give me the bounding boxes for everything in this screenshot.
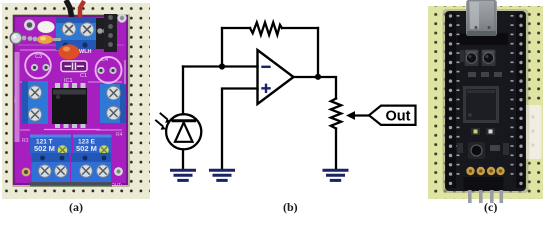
left header strip (446, 13, 456, 188)
shadow under terminals (30, 182, 112, 187)
wire feedback right vertical (317, 28, 319, 77)
wire op-amp output (294, 77, 337, 99)
perfboard C (428, 6, 543, 199)
wire feedback top (222, 27, 318, 29)
mounting hole top-right (117, 13, 126, 22)
trimpot left (30, 135, 71, 155)
usb-c connector (457, 0, 508, 45)
right mid terminal (100, 84, 126, 123)
DIP-8 IC (52, 83, 87, 128)
caption (b) (283, 200, 298, 215)
pcb left edge highlight (15, 52, 20, 142)
gold hole bottom-right (114, 167, 123, 176)
nrst button (482, 50, 496, 67)
left mid terminal (22, 81, 48, 124)
resistor R1 (250, 22, 282, 35)
wire non-inverting input (222, 89, 258, 170)
C1 part (61, 61, 87, 72)
white connector (526, 105, 542, 159)
wire pot to ground (335, 129, 337, 170)
pcb shadow (12, 14, 130, 187)
transistor circle right (96, 57, 122, 83)
wire feedback left vertical (221, 28, 223, 67)
gold pads (466, 167, 504, 175)
op-amp U1 (258, 50, 294, 104)
wire inverting input (183, 65, 258, 67)
potentiometer R2 (331, 99, 341, 129)
smd leds (471, 128, 495, 135)
header right column (104, 14, 117, 52)
top terminal block (56, 17, 96, 50)
silkscreen traces (16, 45, 125, 130)
black socket (96, 18, 108, 49)
ground under non-inverting input (211, 170, 234, 180)
LED left edge (10, 32, 37, 44)
board shadow (443, 9, 529, 193)
ground under potentiometer (324, 170, 347, 180)
perfboard A (2, 3, 150, 199)
pins below (468, 190, 503, 203)
pin labels right (511, 15, 514, 175)
out flag (369, 106, 416, 125)
pin labels left (457, 15, 460, 175)
caption (a) (69, 200, 83, 215)
wiper arrow (346, 111, 369, 120)
boot0 button (465, 50, 479, 67)
orange capacitor (59, 45, 80, 60)
bottom terminal right (71, 153, 111, 182)
mounting hole top-left (24, 20, 35, 31)
caption (c) (484, 200, 497, 215)
silk text C3 C4 IC1 (22, 54, 123, 144)
white blob (38, 21, 55, 33)
lower small parts (457, 143, 509, 155)
node junction inverting input (219, 63, 225, 69)
trimpot right (73, 135, 112, 155)
ground under photodiode (172, 170, 195, 180)
gold hole bottom-left (22, 168, 31, 177)
mcu chip (463, 86, 499, 123)
silk text WLH (79, 49, 92, 55)
photodiode D1 (156, 114, 201, 150)
red wire (80, 1, 84, 19)
right header strip (516, 13, 525, 188)
lower button (468, 142, 485, 159)
purple PCB (14, 16, 127, 184)
amber diode (37, 35, 61, 44)
black wire (66, 0, 72, 19)
small parts above mcu (460, 50, 502, 77)
silk vertical labels (13, 95, 123, 187)
wire photodiode to ground (182, 149, 184, 169)
transistor circle left (25, 53, 51, 79)
bottom terminal left (32, 153, 71, 182)
svg-text:Out: Out (386, 109, 411, 125)
bottom header (464, 177, 504, 190)
node junction output (315, 74, 321, 80)
wire photodiode branch (182, 67, 184, 115)
black pcb (445, 11, 526, 191)
